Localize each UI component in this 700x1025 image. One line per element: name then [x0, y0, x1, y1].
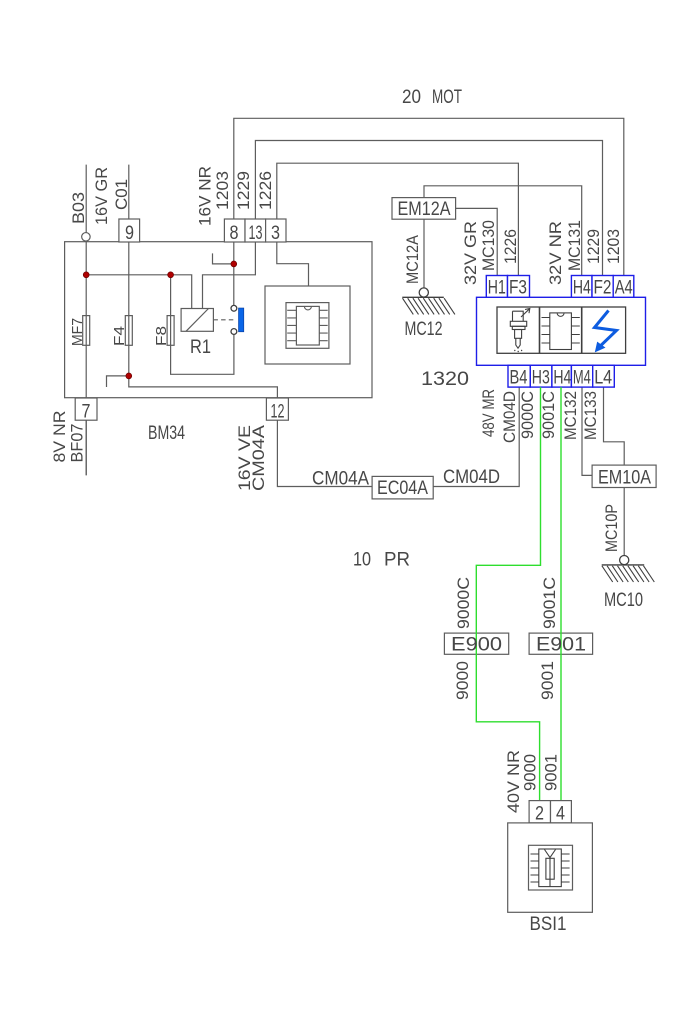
svg-text:MC10: MC10: [604, 590, 643, 611]
internal module box: [265, 286, 350, 364]
svg-text:L4: L4: [594, 368, 612, 389]
label 16V GR: [92, 167, 111, 225]
label 9000 at BSI1: [521, 754, 540, 791]
label MC133: [581, 391, 600, 440]
label B03: [69, 192, 88, 224]
fuse F8: [153, 316, 174, 346]
pin 9: [119, 219, 140, 244]
splice E900: [444, 633, 508, 654]
svg-text:MC10P: MC10P: [602, 504, 621, 552]
pin 12: [266, 398, 288, 423]
svg-text:PR: PR: [384, 550, 410, 571]
wire EM10A to ground MC10: [623, 488, 625, 556]
svg-text:7: 7: [82, 402, 91, 423]
relay box EM10A: [592, 465, 656, 488]
label 9000 below E900: [453, 661, 472, 700]
label CM04D: [443, 467, 500, 488]
unit box BSI1: [508, 823, 593, 912]
svg-text:BM34: BM34: [148, 423, 185, 444]
label 16V NR: [196, 166, 215, 226]
label 9001 at BSI1: [542, 754, 561, 791]
pin L4 of 1320 bottom: [593, 365, 615, 388]
label MC10P: [602, 504, 621, 552]
IC symbol inside BM34: [286, 303, 329, 349]
wire EM12A right to pin H1: [456, 208, 498, 275]
ground MC12: [402, 297, 455, 340]
svg-text:32V NR: 32V NR: [546, 221, 565, 285]
svg-text:EM10A: EM10A: [598, 468, 651, 489]
wire pin L4 to EM10A top: [604, 386, 625, 466]
svg-text:9000: 9000: [453, 661, 472, 700]
splice EC04A: [372, 476, 433, 499]
svg-text:48V MR: 48V MR: [479, 389, 498, 437]
wire fuse F8 to switch contact: [171, 275, 234, 375]
junction on rail at MF7: [83, 272, 89, 278]
IC with fuse inside BSI1: [529, 845, 573, 890]
label 1203: [213, 171, 232, 210]
svg-text:F8: F8: [153, 326, 170, 346]
inner box of 1320: [497, 307, 626, 353]
svg-text:8V NR: 8V NR: [50, 411, 69, 463]
svg-text:3: 3: [271, 223, 280, 244]
svg-text:MC132: MC132: [561, 391, 580, 440]
svg-text:16V NR: 16V NR: [196, 166, 215, 226]
svg-text:9000C: 9000C: [518, 391, 537, 439]
wire 1203 from pin 8 up over to pin A4: [234, 118, 624, 275]
svg-text:MC131: MC131: [565, 220, 584, 271]
label 40V NR: [504, 750, 523, 813]
svg-text:MF7: MF7: [69, 318, 86, 346]
injector symbol: [510, 309, 530, 353]
label 1226: [256, 171, 275, 210]
svg-text:16V GR: 16V GR: [92, 167, 111, 225]
svg-text:MC130: MC130: [479, 220, 498, 271]
ground MC10: [602, 565, 655, 611]
pin F3 of 1320: [508, 276, 530, 299]
label 32V NR: [546, 221, 565, 285]
svg-text:C01: C01: [112, 179, 131, 210]
label 1226 right: [501, 229, 520, 264]
svg-text:CM04A: CM04A: [312, 469, 369, 490]
label 9001C lower: [540, 577, 559, 629]
svg-text:E900: E900: [451, 635, 502, 656]
svg-text:1226: 1226: [256, 171, 275, 210]
green wire 9001 from pin H4 through E901 to BSI1 pin 4: [560, 387, 562, 800]
pin B4 of 1320 bottom: [508, 365, 530, 388]
junction on rail at F8: [168, 272, 174, 278]
wire pin 13 to relay coil right terminal: [203, 242, 256, 309]
label 1229: [234, 171, 253, 210]
svg-text:10: 10: [353, 550, 371, 571]
svg-text:9000: 9000: [521, 754, 540, 791]
pin H4b of 1320 bottom: [552, 365, 572, 388]
label BSI1: [530, 914, 567, 935]
wire C01 vertical into pin 9 and down through F4 to pin 12: [129, 165, 278, 398]
wire below pin 7 (8V NR BF07): [85, 420, 87, 475]
svg-text:EM12A: EM12A: [398, 199, 451, 220]
svg-text:H1: H1: [488, 278, 506, 299]
svg-text:BSI1: BSI1: [530, 914, 567, 935]
label 1320: [421, 369, 469, 390]
svg-text:H3: H3: [532, 368, 550, 389]
wire EM12A to ground MC12: [423, 219, 425, 288]
svg-text:9001C: 9001C: [539, 391, 558, 439]
wire F4 junction stub: [107, 376, 129, 387]
svg-text:1203: 1203: [604, 229, 623, 264]
svg-text:32V GR: 32V GR: [461, 221, 480, 285]
svg-text:1229: 1229: [234, 171, 253, 210]
terminal circle MC10: [620, 556, 629, 565]
label 20 MOT: [402, 87, 462, 108]
svg-text:EC04A: EC04A: [377, 478, 428, 499]
svg-text:9001: 9001: [538, 661, 557, 700]
pin 8: [224, 219, 245, 244]
label 9001 below E901: [538, 661, 557, 700]
pin 13: [245, 219, 266, 244]
wire pin M4 to EM10A: [582, 386, 592, 476]
svg-text:MC12: MC12: [405, 319, 443, 340]
wire from pin 12 down to EC04A splice and to CM04D / pin B4: [277, 386, 519, 487]
pin 3: [266, 219, 286, 244]
wire 1229 from pin 13 up over to pin F2: [255, 141, 602, 276]
label BM34: [148, 423, 185, 444]
junction on wire 8: [231, 261, 237, 267]
splice E901: [529, 633, 593, 654]
label BF07: [68, 424, 87, 463]
svg-text:9001: 9001: [542, 754, 561, 791]
svg-text:1229: 1229: [584, 229, 603, 264]
wire pin 8 to switch with internal stub: [213, 242, 234, 305]
svg-text:2: 2: [535, 804, 544, 825]
label CM04D rotated: [500, 391, 519, 443]
label E900: [451, 635, 502, 656]
svg-text:M4: M4: [573, 368, 591, 389]
switch contact circles: [231, 305, 237, 334]
wire pin 3 to internal module: [277, 242, 309, 286]
svg-text:CM04D: CM04D: [443, 467, 500, 488]
relay contact link dashed: [213, 319, 236, 321]
wire supply rail to relay coil left terminal: [86, 275, 192, 309]
label 1203 right: [604, 229, 623, 264]
svg-text:9: 9: [125, 223, 134, 244]
relay R1 coil: [181, 309, 213, 359]
pin H3 of 1320 bottom: [530, 365, 552, 388]
svg-text:BF07: BF07: [68, 424, 87, 463]
pin 4 of BSI1: [551, 801, 572, 825]
svg-text:A4: A4: [615, 278, 633, 299]
component 1320 blue outline: [477, 297, 646, 365]
label CM04A rotated: [249, 424, 268, 491]
svg-text:1226: 1226: [501, 229, 520, 264]
svg-text:B03: B03: [69, 192, 88, 224]
svg-text:H4: H4: [573, 278, 591, 299]
svg-text:CM04D: CM04D: [500, 391, 519, 443]
pin 7: [75, 398, 97, 423]
fuse F4: [111, 316, 132, 346]
label C01: [112, 179, 131, 210]
label 16V VE: [235, 425, 254, 491]
relay box EM12A: [392, 198, 456, 220]
lightning bolt symbol: [595, 311, 617, 352]
svg-text:9000C: 9000C: [454, 577, 473, 629]
pin H4 of 1320: [571, 276, 592, 299]
IC symbol inside 1320: [542, 313, 580, 350]
svg-text:B4: B4: [510, 368, 528, 389]
wire B03 16V GR vertical: [85, 165, 87, 476]
label MC131: [565, 220, 584, 271]
ECU box BM34: [65, 242, 372, 398]
junction on wire F4: [126, 373, 132, 379]
svg-text:MC133: MC133: [581, 391, 600, 440]
svg-text:F3: F3: [509, 278, 527, 299]
svg-text:E901: E901: [536, 635, 586, 656]
label 8V NR: [50, 411, 69, 463]
wire EM12A top to pin H4: [424, 186, 582, 276]
pin A4 of 1320: [613, 276, 634, 299]
svg-text:CM04A: CM04A: [249, 424, 268, 491]
fuse MF7: [69, 316, 90, 346]
pin F2 of 1320: [592, 276, 613, 299]
svg-text:20: 20: [402, 87, 421, 108]
svg-text:R1: R1: [190, 337, 211, 358]
svg-text:8: 8: [230, 223, 239, 244]
green wire 9000 from pin H3 through E900 to BSI1 pin 2: [476, 387, 540, 800]
svg-text:H4: H4: [553, 368, 571, 389]
label MC12A: [403, 234, 422, 284]
pin M4 of 1320 bottom: [571, 365, 592, 388]
label MC130: [479, 220, 498, 271]
label MC132: [561, 391, 580, 440]
label E901: [536, 635, 586, 656]
svg-text:9001C: 9001C: [540, 577, 559, 629]
svg-text:1320: 1320: [421, 369, 469, 390]
label 10 PR: [353, 550, 410, 571]
terminal circle MC12: [419, 288, 428, 297]
svg-text:MC12A: MC12A: [403, 234, 422, 284]
pin H1 of 1320: [486, 276, 507, 299]
divider lines: [540, 307, 582, 353]
label 32V GR: [461, 221, 480, 285]
label 48V MR: [479, 389, 498, 437]
svg-text:4: 4: [556, 804, 565, 825]
svg-text:1203: 1203: [213, 171, 232, 210]
svg-text:12: 12: [271, 402, 285, 423]
label CM04A: [312, 469, 369, 490]
svg-text:F4: F4: [111, 326, 128, 346]
wire 1226 from pin 3 up over to pin F3: [277, 163, 519, 275]
pin 2 of BSI1: [529, 801, 550, 825]
switch blue bar: [239, 308, 244, 332]
label 1229 right: [584, 229, 603, 264]
svg-text:13: 13: [249, 223, 263, 244]
label 9001C: [539, 391, 558, 439]
terminal circle B03: [82, 233, 91, 242]
label 9000C lower: [454, 577, 473, 629]
svg-text:F2: F2: [594, 278, 612, 299]
svg-text:MOT: MOT: [432, 87, 462, 108]
label 9000C: [518, 391, 537, 439]
